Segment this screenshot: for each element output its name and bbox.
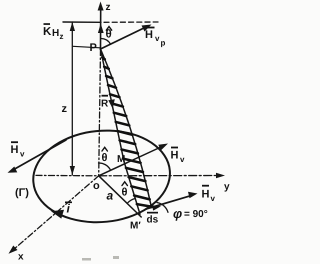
svg-text:ds: ds xyxy=(147,215,159,226)
svg-text:H: H xyxy=(11,144,19,156)
phi = 90 label xyxy=(173,206,208,221)
ray O to M to contour with H_v arrow (upper right) xyxy=(99,147,162,176)
dimension arrow down xyxy=(70,166,75,175)
lower-right H_v tangent arrow xyxy=(146,195,192,209)
vector K Hz along axis : arrowhead tip below top line xyxy=(98,24,104,34)
label H_v lower-right xyxy=(202,185,216,203)
phi angle arc at ds xyxy=(157,203,168,213)
z axis (solid above P) xyxy=(100,6,102,50)
svg-text:z: z xyxy=(60,32,64,41)
svg-text:z: z xyxy=(106,2,111,13)
svg-text:φ: φ xyxy=(173,206,182,221)
svg-text:P: P xyxy=(90,42,97,54)
ds label with overbar xyxy=(147,212,159,226)
svg-text:o: o xyxy=(93,180,100,192)
x axis dash-dot from O xyxy=(13,176,99,250)
svg-text:K: K xyxy=(43,26,52,38)
svg-text:θ: θ xyxy=(102,152,108,164)
svg-text:(Γ): (Γ) xyxy=(15,187,29,199)
svg-text:= 90°: = 90° xyxy=(184,209,208,220)
label H_v upper-right xyxy=(171,147,186,164)
y axis dash-dot from O xyxy=(99,175,219,177)
svg-text:a: a xyxy=(107,189,114,203)
svg-text:y: y xyxy=(224,182,230,193)
svg-text:v: v xyxy=(20,150,25,159)
theta-hat label at P xyxy=(106,27,112,41)
theta-hat label at O xyxy=(102,147,108,164)
theta-hat angle arc at M' xyxy=(127,199,135,204)
svg-text:H: H xyxy=(145,29,153,41)
theta-hat angle arc at O xyxy=(99,163,111,170)
z dimension line xyxy=(71,22,73,175)
top horizontal line (solid left of axis) xyxy=(63,21,101,23)
label H_vp xyxy=(145,27,166,48)
contour (Γ) ellipse xyxy=(33,131,170,223)
svg-text:H: H xyxy=(52,28,59,39)
svg-text:H: H xyxy=(202,189,210,201)
faint caption remnants xyxy=(82,256,119,261)
vector R arrowhead on left edge xyxy=(108,99,115,108)
svg-text:M′: M′ xyxy=(130,221,141,232)
label K Hz xyxy=(43,23,64,41)
label R xyxy=(101,95,109,110)
svg-text:x: x xyxy=(18,252,24,263)
left dash-dot line from O xyxy=(36,174,99,176)
z axis arrowhead xyxy=(98,2,104,11)
svg-text:v: v xyxy=(180,155,185,164)
circulation arrowhead i on contour xyxy=(51,210,64,219)
svg-text:H: H xyxy=(171,150,179,162)
svg-text:R: R xyxy=(101,99,109,110)
hatched triangle right edge P-S xyxy=(101,49,152,208)
radius a line from O to M' xyxy=(99,176,142,217)
svg-text:p: p xyxy=(161,39,166,48)
z axis dash-dot below P to O xyxy=(99,50,101,176)
svg-text:M: M xyxy=(117,154,125,165)
ds direction arrowhead xyxy=(152,205,161,210)
y axis arrowhead xyxy=(216,173,225,179)
theta-hat label at M' xyxy=(122,182,128,199)
hatched triangle left edge P-M-M' xyxy=(101,49,141,214)
svg-text:v: v xyxy=(155,34,160,43)
upper-left H_v tangent arrow xyxy=(12,140,66,171)
dimension arrow up xyxy=(70,22,75,31)
x axis arrowhead xyxy=(9,246,18,254)
vector H_vp from P xyxy=(101,27,148,50)
svg-text:z: z xyxy=(62,103,68,115)
label H_v upper-left xyxy=(11,141,26,158)
theta-hat angle arc at P xyxy=(101,38,111,44)
svg-text:v: v xyxy=(211,194,216,203)
hatching rungs xyxy=(102,58,150,207)
unit vector label i xyxy=(65,202,72,216)
svg-text:θ: θ xyxy=(122,187,128,199)
tick at P level xyxy=(73,46,100,48)
top horizontal dashed line right of axis xyxy=(104,21,158,23)
